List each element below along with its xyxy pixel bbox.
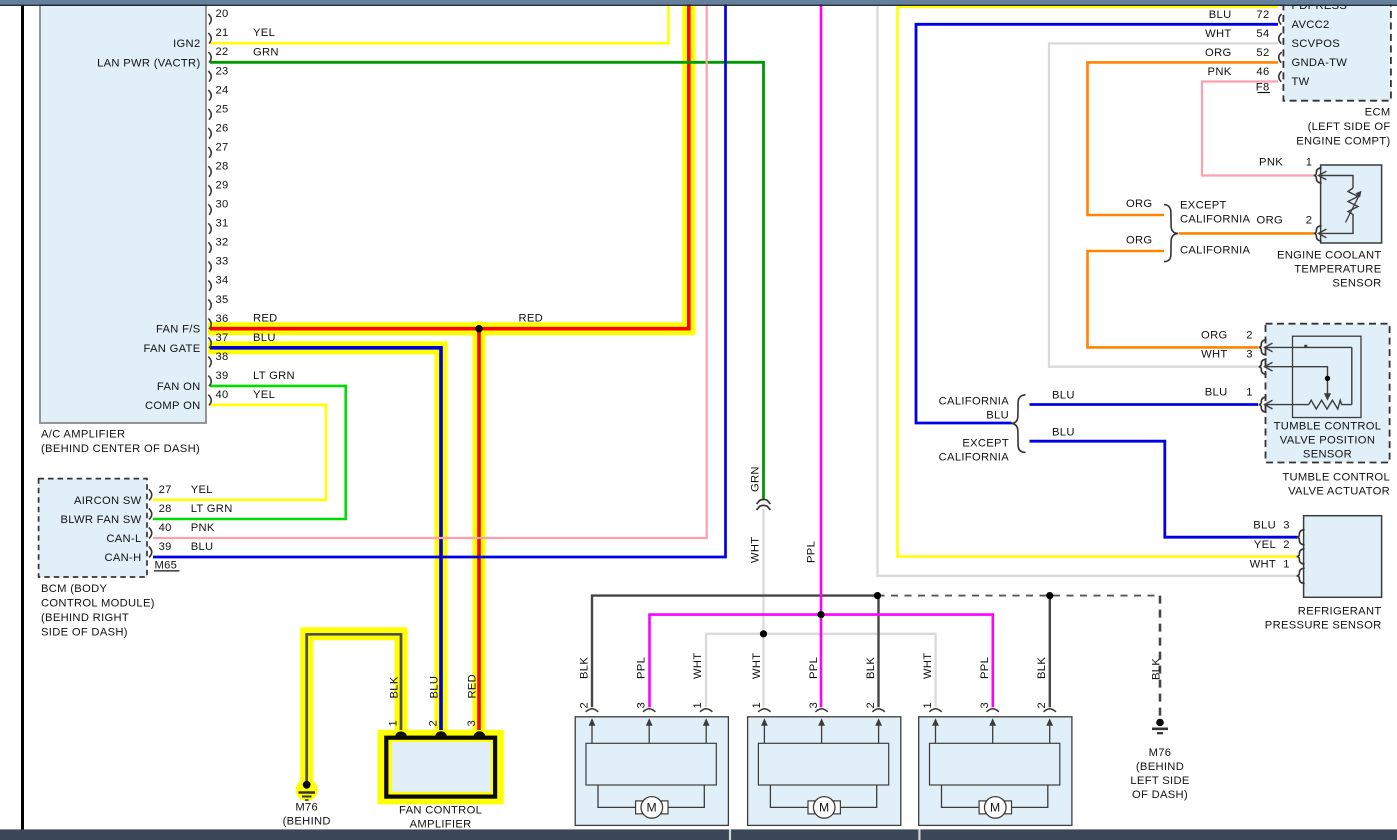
svg-text:RED: RED bbox=[253, 313, 278, 325]
highlight glow: ground M76 blob bbox=[296, 779, 318, 801]
svg-text:1: 1 bbox=[1246, 387, 1253, 399]
FCA caption bbox=[399, 805, 482, 831]
svg-text:ORG: ORG bbox=[1126, 234, 1152, 246]
fan control amplifier box bbox=[386, 738, 495, 797]
wire BLK fan motor net solid bbox=[592, 596, 878, 708]
tumble sensor inner box bbox=[1293, 336, 1362, 417]
svg-text:SENSOR: SENSOR bbox=[1303, 448, 1352, 460]
svg-text:26: 26 bbox=[216, 122, 229, 134]
engine coolant temperature sensor box bbox=[1321, 165, 1382, 243]
svg-text:WHT: WHT bbox=[1250, 558, 1276, 570]
bottom toolbar strip bbox=[0, 829, 1397, 840]
svg-text:BLK: BLK bbox=[1151, 658, 1163, 680]
svg-text:3: 3 bbox=[466, 720, 478, 727]
BCM connector M65 bbox=[154, 560, 180, 572]
svg-text:BLU: BLU bbox=[253, 332, 276, 344]
A/C pin numbers 20-40 bbox=[216, 8, 229, 401]
svg-text:BLU: BLU bbox=[1209, 9, 1232, 21]
svg-text:39: 39 bbox=[216, 370, 229, 382]
A/C pin 40 wire label YEL bbox=[253, 389, 275, 401]
svg-text:1: 1 bbox=[751, 702, 763, 709]
refrigerant pin 2 labels bbox=[1254, 539, 1290, 551]
wire WHT ECM SCVPOS to tumble pin 3 bbox=[1049, 43, 1278, 366]
A/C pin 22 wire label GRN bbox=[253, 46, 279, 58]
svg-text:GRN: GRN bbox=[750, 466, 762, 492]
svg-text:54: 54 bbox=[1256, 28, 1269, 40]
svg-text:40: 40 bbox=[216, 389, 229, 401]
svg-text:BLU: BLU bbox=[1205, 387, 1228, 399]
ECT pin 2 labels bbox=[1257, 214, 1313, 226]
svg-text:CAN-L: CAN-L bbox=[106, 533, 141, 545]
svg-text:2: 2 bbox=[1036, 702, 1048, 709]
ground M76 left (highlighted) bbox=[299, 781, 316, 800]
svg-text:LT GRN: LT GRN bbox=[253, 370, 295, 382]
junction dot PPL net bbox=[817, 611, 824, 618]
svg-text:M: M bbox=[819, 801, 829, 815]
svg-text:GRN: GRN bbox=[253, 46, 279, 58]
brace ORG except-california/california bbox=[1164, 205, 1178, 262]
svg-text:BLU: BLU bbox=[1253, 520, 1276, 532]
svg-text:SIDE OF DASH): SIDE OF DASH) bbox=[41, 627, 128, 639]
FCA pin 1 labels bbox=[388, 676, 401, 726]
wire BLU ECM AVCC2 to brace bbox=[916, 24, 1278, 423]
svg-text:3: 3 bbox=[635, 702, 647, 709]
refrigerant caption bbox=[1265, 605, 1382, 631]
svg-text:FAN GATE: FAN GATE bbox=[143, 343, 200, 355]
BCM pin 39 number+label bbox=[159, 541, 214, 553]
A/C pin name FAN F/S bbox=[156, 324, 201, 336]
svg-text:EXCEPT: EXCEPT bbox=[962, 437, 1009, 449]
svg-text:22: 22 bbox=[216, 46, 229, 58]
svg-text:WHT: WHT bbox=[750, 537, 762, 563]
svg-text:36: 36 bbox=[216, 313, 229, 325]
wire YEL A/C pin 21 IGN2 bbox=[210, 4, 669, 43]
svg-text:TUMBLE CONTROL: TUMBLE CONTROL bbox=[1274, 421, 1382, 433]
A/C pin 39 wire label LT GRN bbox=[253, 370, 295, 382]
fan motor 2 box bbox=[748, 709, 901, 826]
svg-text:CONTROL MODULE): CONTROL MODULE) bbox=[41, 598, 155, 610]
svg-text:CALIFORNIA: CALIFORNIA bbox=[939, 396, 1010, 408]
svg-text:40: 40 bbox=[159, 522, 172, 534]
svg-text:YEL: YEL bbox=[253, 389, 275, 401]
svg-text:28: 28 bbox=[216, 161, 229, 173]
BCM pin name BLWR FAN SW bbox=[60, 514, 141, 526]
BCM caption bbox=[41, 583, 155, 639]
svg-text:TW: TW bbox=[1292, 76, 1310, 88]
svg-text:3: 3 bbox=[979, 702, 991, 709]
resistor (thermistor) in ECT sensor bbox=[1318, 171, 1361, 238]
svg-text:ECM: ECM bbox=[1365, 107, 1391, 119]
highlight glow: RED branch to fan control amplifier pin 3 bbox=[473, 322, 486, 733]
tumble actuator caption bbox=[1282, 472, 1390, 498]
BCM pin 28 number+label bbox=[159, 503, 233, 515]
BCM pin name CAN-L bbox=[106, 533, 141, 545]
tumble sensor caption bbox=[1274, 421, 1382, 461]
svg-text:M: M bbox=[990, 801, 1000, 815]
svg-text:ORG: ORG bbox=[1126, 198, 1152, 210]
ECT sensor pin brackets bbox=[1314, 168, 1322, 242]
svg-text:RED: RED bbox=[519, 313, 544, 325]
M76 right caption bbox=[1130, 747, 1189, 801]
svg-text:3: 3 bbox=[1283, 520, 1290, 532]
refrigerant pressure sensor box bbox=[1304, 516, 1382, 598]
svg-text:M76: M76 bbox=[295, 801, 318, 813]
CALIFORNIA label bbox=[1180, 244, 1251, 256]
GRN vertical label bbox=[750, 466, 762, 492]
svg-text:1: 1 bbox=[1306, 157, 1313, 169]
wire PPL main vertical bbox=[820, 4, 823, 707]
BLK vertical label right dashed bbox=[1151, 658, 1163, 680]
ECM pin row labels bbox=[1205, 9, 1269, 78]
svg-text:2: 2 bbox=[1306, 214, 1313, 226]
refrigerant pin 3 labels bbox=[1253, 520, 1290, 532]
wire BLK FCA pin 1 to ground M76 (highlighted) bbox=[307, 634, 401, 781]
highlight glow: FCA pin bumps bbox=[393, 727, 488, 743]
wire BLU BCM CAN-H bbox=[153, 4, 726, 557]
svg-text:30: 30 bbox=[216, 199, 229, 211]
A/C pin name IGN2 bbox=[173, 38, 200, 50]
A/C amplifier box bbox=[40, 5, 206, 423]
svg-text:PPL: PPL bbox=[979, 657, 991, 679]
svg-text:39: 39 bbox=[159, 541, 172, 553]
EXCEPT CALIFORNIA label 2 bbox=[939, 437, 1010, 463]
svg-text:BLK: BLK bbox=[865, 657, 877, 679]
svg-text:A/C AMPLIFIER: A/C AMPLIFIER bbox=[41, 429, 125, 441]
svg-text:TUMBLE CONTROL: TUMBLE CONTROL bbox=[1282, 472, 1390, 484]
A/C pin 36 wire label RED bbox=[253, 313, 278, 325]
svg-text:46: 46 bbox=[1256, 66, 1269, 78]
svg-text:EXCEPT: EXCEPT bbox=[1180, 199, 1227, 211]
tumble pin 1 labels bbox=[1205, 387, 1253, 399]
svg-text:29: 29 bbox=[216, 180, 229, 192]
A/C pin name COMP ON bbox=[145, 400, 201, 412]
svg-text:AMPLIFIER: AMPLIFIER bbox=[410, 819, 472, 831]
fan motor 2 pin labels bbox=[751, 653, 877, 709]
svg-text:WHT: WHT bbox=[1201, 349, 1227, 361]
refrigerant pin 1 labels bbox=[1250, 558, 1290, 570]
wire BLU except-california branch to refrigerant pin 3 bbox=[1030, 441, 1298, 537]
wire WHT top vertical to refrigerant sensor pin 1 bbox=[878, 4, 1298, 576]
svg-text:27: 27 bbox=[159, 484, 172, 496]
wire PNK BCM CAN-L bbox=[153, 4, 707, 538]
svg-text:CAN-H: CAN-H bbox=[104, 552, 141, 564]
wire BLK stub to motor 3 pin 2 bbox=[1049, 596, 1051, 708]
brace BLU california/except-california bbox=[1011, 395, 1025, 453]
svg-text:ENGINE COOLANT: ENGINE COOLANT bbox=[1277, 249, 1382, 261]
ECM pin names bbox=[1292, 0, 1348, 88]
wire PNK ECM TW to ECT pin 1 bbox=[1202, 82, 1314, 176]
svg-text:VALVE ACTUATOR: VALVE ACTUATOR bbox=[1288, 486, 1390, 498]
svg-text:BLK: BLK bbox=[1036, 657, 1048, 679]
svg-text:M65: M65 bbox=[155, 560, 178, 572]
wire GRN A/C pin 22 LAN PWR bbox=[210, 62, 764, 499]
ORG label california bbox=[1126, 234, 1152, 246]
svg-text:21: 21 bbox=[216, 27, 229, 39]
svg-text:37: 37 bbox=[216, 332, 229, 344]
svg-text:72: 72 bbox=[1256, 9, 1269, 21]
tumble pin 3 labels bbox=[1201, 349, 1253, 361]
highlight glow: BLK ground wire to M76 bbox=[307, 634, 401, 782]
svg-text:YEL: YEL bbox=[191, 484, 213, 496]
BCM pin name AIRCON SW bbox=[74, 495, 142, 507]
svg-text:BLU: BLU bbox=[1052, 427, 1075, 439]
svg-text:PPL: PPL bbox=[635, 657, 647, 679]
svg-text:TEMPERATURE: TEMPERATURE bbox=[1294, 263, 1381, 275]
svg-text:BLU: BLU bbox=[191, 541, 214, 553]
svg-text:1: 1 bbox=[388, 720, 400, 727]
wire RED branch to FCA pin 3 bbox=[477, 329, 481, 730]
svg-text:YEL: YEL bbox=[253, 27, 275, 39]
potentiometer in tumble position sensor bbox=[1265, 343, 1352, 409]
svg-text:BLK: BLK bbox=[578, 657, 590, 679]
tumble control valve position sensor box bbox=[1266, 324, 1390, 463]
WHT vertical label below splice bbox=[750, 537, 762, 563]
PPL vertical label bbox=[806, 541, 818, 563]
svg-text:VALVE POSITION: VALVE POSITION bbox=[1280, 435, 1375, 447]
highlight glow: junction node on RED wire bbox=[472, 321, 487, 336]
junction dot RED wire bbox=[475, 325, 482, 332]
svg-text:ORG: ORG bbox=[1201, 329, 1227, 341]
svg-text:2: 2 bbox=[1246, 329, 1253, 341]
svg-text:FAN ON: FAN ON bbox=[157, 381, 201, 393]
wire YEL A/C pin 40 COMP ON to BCM pin 27 bbox=[153, 405, 326, 500]
wire ORG brace output to ECT pin 2 bbox=[1179, 232, 1314, 235]
svg-text:PNK: PNK bbox=[1259, 157, 1283, 169]
svg-text:24: 24 bbox=[216, 84, 229, 96]
ECM box bbox=[1283, 0, 1391, 101]
svg-text:LAN PWR (VACTR): LAN PWR (VACTR) bbox=[97, 57, 200, 69]
fan motor 3 pin labels bbox=[922, 653, 1048, 709]
A/C amplifier pin connector arcs 20-40 bbox=[208, 14, 211, 405]
highlight glow: BLU FAN GATE wire bbox=[208, 348, 441, 731]
svg-text:AIRCON SW: AIRCON SW bbox=[74, 495, 142, 507]
left border line bbox=[21, 5, 24, 830]
tumble pin 2 labels bbox=[1201, 329, 1253, 341]
ECT caption bbox=[1277, 249, 1382, 289]
svg-text:PRESSURE SENSOR: PRESSURE SENSOR bbox=[1265, 620, 1382, 632]
top toolbar strip bbox=[0, 0, 1397, 6]
wire WHT segment below GRN splice bbox=[762, 509, 764, 708]
fan motor 3 box bbox=[919, 709, 1072, 826]
wire BLU california branch to tumble pin 1 bbox=[1030, 403, 1259, 406]
svg-text:RED: RED bbox=[466, 674, 478, 699]
CALIFORNIA BLU label bbox=[939, 396, 1010, 422]
svg-text:52: 52 bbox=[1256, 47, 1269, 59]
RED label right of junction bbox=[519, 313, 544, 325]
svg-text:23: 23 bbox=[216, 65, 229, 77]
svg-text:WHT: WHT bbox=[1205, 28, 1231, 40]
svg-text:(BEHIND: (BEHIND bbox=[1136, 761, 1184, 773]
svg-text:WHT: WHT bbox=[922, 653, 934, 679]
svg-text:WHT: WHT bbox=[692, 653, 704, 679]
wire BLK stub to motor 2 pin 2 bbox=[877, 596, 879, 708]
svg-text:1: 1 bbox=[692, 702, 704, 709]
junction dot WHT net bbox=[760, 630, 767, 637]
svg-text:LT GRN: LT GRN bbox=[191, 503, 233, 515]
ORG label except-california bbox=[1126, 198, 1152, 210]
svg-text:20: 20 bbox=[216, 8, 229, 20]
svg-text:BLWR FAN SW: BLWR FAN SW bbox=[60, 514, 141, 526]
junction dot BLK net at motor 2 bbox=[874, 592, 881, 599]
svg-text:3: 3 bbox=[1246, 349, 1253, 361]
svg-text:33: 33 bbox=[216, 256, 229, 268]
BCM pin 40 number+label bbox=[159, 522, 215, 534]
svg-text:YEL: YEL bbox=[1254, 539, 1276, 551]
svg-text:ENGINE COMPT): ENGINE COMPT) bbox=[1296, 136, 1390, 148]
svg-text:M76: M76 bbox=[1149, 747, 1172, 759]
A/C pin name FAN ON bbox=[157, 381, 201, 393]
svg-text:CALIFORNIA: CALIFORNIA bbox=[1180, 213, 1251, 225]
EXCEPT CALIFORNIA label bbox=[1180, 199, 1251, 225]
svg-text:SCVPOS: SCVPOS bbox=[1292, 38, 1341, 50]
svg-text:FAN CONTROL: FAN CONTROL bbox=[399, 805, 482, 817]
A/C amplifier caption bbox=[41, 429, 200, 456]
wire ORG ECM GNDA-TW to brace bbox=[1088, 62, 1279, 215]
BCM pin 27 number+label bbox=[159, 484, 213, 496]
svg-text:2: 2 bbox=[865, 702, 877, 709]
svg-text:WHT: WHT bbox=[751, 653, 763, 679]
svg-text:1: 1 bbox=[1283, 558, 1290, 570]
svg-text:(BEHIND: (BEHIND bbox=[283, 816, 331, 828]
ground M76 right bbox=[1152, 719, 1168, 734]
wire PPL fan motor net bbox=[650, 615, 993, 708]
junction dot BLK net at motor 3 bbox=[1046, 592, 1053, 599]
svg-text:(BEHIND CENTER OF DASH): (BEHIND CENTER OF DASH) bbox=[41, 443, 200, 455]
wire BLK dashed to ground M76 right bbox=[878, 596, 1161, 717]
svg-text:27: 27 bbox=[216, 141, 229, 153]
fan motor 1 pin labels bbox=[578, 653, 704, 709]
svg-text:3: 3 bbox=[808, 702, 820, 709]
ECT pin 1 labels bbox=[1259, 157, 1312, 169]
ECM connector F8 bbox=[1256, 81, 1270, 93]
tumble sensor pin brackets bbox=[1259, 340, 1267, 413]
svg-text:BLK: BLK bbox=[388, 676, 400, 698]
svg-text:ORG: ORG bbox=[1205, 47, 1231, 59]
wire RED A/C pin 36 FAN F/S (highlighted) bbox=[210, 4, 689, 329]
svg-text:1: 1 bbox=[922, 702, 934, 709]
svg-text:PNK: PNK bbox=[191, 522, 215, 534]
svg-text:AVCC2: AVCC2 bbox=[1292, 19, 1330, 31]
svg-text:2: 2 bbox=[428, 720, 440, 727]
svg-text:SENSOR: SENSOR bbox=[1332, 277, 1381, 289]
refrigerant sensor pin brackets bbox=[1297, 529, 1305, 583]
BCM body control module box bbox=[39, 479, 147, 577]
svg-text:OF DASH): OF DASH) bbox=[1132, 789, 1188, 801]
svg-text:(BEHIND RIGHT: (BEHIND RIGHT bbox=[41, 612, 129, 624]
svg-text:ORG: ORG bbox=[1257, 214, 1283, 226]
svg-text:PPL: PPL bbox=[806, 541, 818, 563]
svg-text:25: 25 bbox=[216, 103, 229, 115]
svg-text:PNK: PNK bbox=[1208, 66, 1232, 78]
A/C pin name LAN PWR (VACTR) bbox=[97, 57, 200, 69]
svg-text:2: 2 bbox=[1283, 539, 1290, 551]
svg-text:32: 32 bbox=[216, 237, 229, 249]
ECM caption bbox=[1296, 107, 1390, 148]
svg-text:GNDA-TW: GNDA-TW bbox=[1292, 57, 1348, 69]
svg-text:BLU: BLU bbox=[428, 676, 440, 699]
svg-text:LEFT SIDE: LEFT SIDE bbox=[1130, 775, 1189, 787]
A/C pin 37 wire label BLU bbox=[253, 332, 276, 344]
wire WHT fan motor net bbox=[706, 634, 936, 708]
svg-text:PPL: PPL bbox=[808, 657, 820, 679]
BCM pin name CAN-H bbox=[104, 552, 141, 564]
svg-text:2: 2 bbox=[578, 702, 590, 709]
BCM pin connector arcs bbox=[149, 489, 152, 557]
svg-text:28: 28 bbox=[159, 503, 172, 515]
svg-text:M: M bbox=[647, 801, 657, 815]
svg-text:BLU: BLU bbox=[986, 409, 1009, 421]
highlight glow: fan control amplifier box bbox=[378, 730, 504, 805]
svg-text:FAN F/S: FAN F/S bbox=[156, 324, 201, 336]
svg-text:COMP ON: COMP ON bbox=[145, 400, 201, 412]
svg-text:38: 38 bbox=[216, 351, 229, 363]
svg-text:F8: F8 bbox=[1256, 81, 1270, 93]
BLU branch label top bbox=[1052, 390, 1075, 402]
inline splice symbol GRN/WHT bbox=[757, 499, 771, 509]
svg-text:BLU: BLU bbox=[1052, 390, 1075, 402]
svg-text:REFRIGERANT: REFRIGERANT bbox=[1298, 605, 1382, 617]
svg-text:CALIFORNIA: CALIFORNIA bbox=[939, 451, 1010, 463]
svg-text:(LEFT SIDE OF: (LEFT SIDE OF bbox=[1308, 121, 1391, 133]
FCA pin 2 labels bbox=[428, 676, 441, 727]
svg-text:BCM (BODY: BCM (BODY bbox=[41, 583, 107, 595]
svg-text:35: 35 bbox=[216, 294, 229, 306]
highlight glow: RED FAN F/S wire bbox=[208, 4, 689, 329]
A/C pin 21 wire label YEL bbox=[253, 27, 275, 39]
ECM pin connector arcs bbox=[1279, 0, 1282, 82]
BLU branch label bottom bbox=[1052, 427, 1075, 439]
fan motor 1 box bbox=[575, 709, 728, 826]
svg-text:31: 31 bbox=[216, 218, 229, 230]
wire LT GRN A/C pin 39 FAN ON to BCM pin 28 bbox=[153, 386, 346, 519]
wire BLU A/C pin 37 FAN GATE (highlighted) bbox=[210, 348, 441, 730]
FCA pin bumps bbox=[395, 731, 485, 736]
A/C pin name FAN GATE bbox=[143, 343, 200, 355]
svg-text:IGN2: IGN2 bbox=[173, 38, 200, 50]
M76 left caption bbox=[283, 801, 331, 827]
wire YEL ECM to refrigerant sensor pin 2 bbox=[898, 7, 1298, 557]
wire ORG california to tumble pin 2 bbox=[1088, 251, 1259, 347]
svg-text:34: 34 bbox=[216, 275, 229, 287]
FCA pin 3 labels bbox=[466, 674, 478, 727]
svg-text:CALIFORNIA: CALIFORNIA bbox=[1180, 244, 1251, 256]
